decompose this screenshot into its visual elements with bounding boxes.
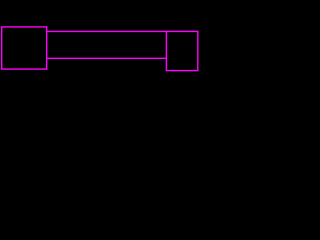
block U2 (right box) [166, 31, 197, 70]
wire bottom (U1 right edge to U2 left edge) [47, 57, 167, 59]
wire top (U1 right edge to U2 top-left) [47, 30, 167, 32]
block U1 (left box) [2, 27, 47, 69]
